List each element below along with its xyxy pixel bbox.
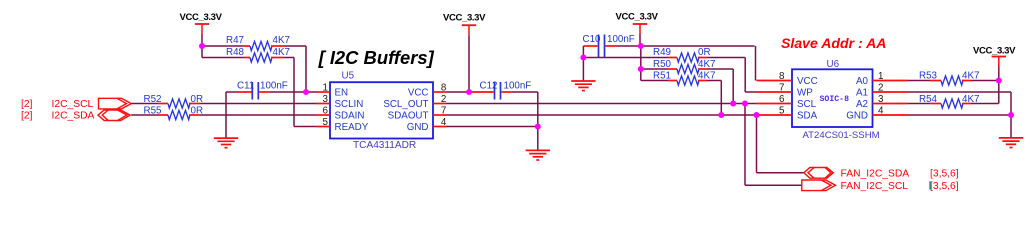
power VCC_3.3V P1 bbox=[180, 12, 223, 46]
U6 pin 2 A1 bbox=[856, 82, 907, 98]
svg-text:C10: C10 bbox=[583, 34, 602, 45]
title Slave Addr AA bbox=[781, 35, 886, 51]
wire vert to R51 bbox=[641, 80, 668, 82]
svg-text:SDA: SDA bbox=[797, 110, 818, 121]
svg-text:A0: A0 bbox=[856, 76, 869, 87]
svg-text:TCA4311ADR: TCA4311ADR bbox=[353, 140, 416, 151]
svg-text:[ I2C Buffers]: [ I2C Buffers] bbox=[318, 47, 435, 68]
svg-text:SCLIN: SCLIN bbox=[335, 99, 364, 110]
wire U5 GND row bbox=[447, 126, 538, 128]
svg-text:VCC_3.3V: VCC_3.3V bbox=[616, 12, 659, 23]
U5 pin 7 SDAOUT bbox=[388, 105, 447, 121]
svg-text:FAN_I2C_SCL: FAN_I2C_SCL bbox=[841, 181, 909, 192]
svg-text:100nF: 100nF bbox=[504, 81, 532, 92]
wire SDA to FAN_I2C_SDA bbox=[757, 115, 804, 173]
svg-text:[3,5,6]: [3,5,6] bbox=[930, 181, 959, 192]
svg-text:6: 6 bbox=[779, 94, 785, 105]
wire R51 to SDA row bbox=[707, 81, 721, 116]
wire C11 to EN node bbox=[269, 91, 317, 93]
svg-text:100nF: 100nF bbox=[607, 34, 635, 45]
svg-text:4K7: 4K7 bbox=[273, 35, 290, 46]
U6 pin 1 A0 bbox=[856, 71, 907, 87]
resistor R47 4K7 bbox=[226, 35, 290, 51]
svg-text:4K7: 4K7 bbox=[962, 70, 979, 81]
power VCC_3.3V P4 bbox=[973, 45, 1016, 80]
svg-text:R54: R54 bbox=[919, 94, 938, 105]
wire ground stem G2 bbox=[582, 58, 584, 82]
wire U5 VCC to junction bbox=[447, 91, 470, 93]
svg-text:VCC: VCC bbox=[797, 76, 818, 87]
wire VCC rail down to U6 pin8 bbox=[755, 46, 757, 81]
U6 pin 7 WP bbox=[757, 82, 814, 98]
svg-text:I2C_SCL: I2C_SCL bbox=[52, 99, 94, 110]
svg-text:GND: GND bbox=[407, 122, 429, 133]
wire vert to R50 bbox=[641, 68, 668, 70]
svg-text:8: 8 bbox=[441, 82, 447, 93]
capacitor C11 100nF bbox=[237, 81, 288, 100]
svg-text:R51: R51 bbox=[653, 70, 671, 81]
svg-text:1: 1 bbox=[323, 82, 328, 93]
wire SDA long row bbox=[447, 114, 757, 116]
svg-text:6: 6 bbox=[323, 105, 329, 116]
svg-text:EN: EN bbox=[335, 87, 349, 98]
wire R54 to VCC vertical bbox=[971, 81, 999, 104]
off-page connector I2C_SDA bbox=[21, 110, 130, 122]
svg-text:SDAIN: SDAIN bbox=[335, 110, 365, 121]
svg-text:SCL: SCL bbox=[797, 99, 817, 110]
svg-text:[2]: [2] bbox=[21, 111, 33, 122]
wire C11 to ground bbox=[226, 92, 238, 138]
svg-text:READY: READY bbox=[335, 122, 369, 133]
wire U6 A2 to R54 bbox=[908, 103, 931, 105]
wire GND node to R49 bbox=[583, 57, 668, 59]
svg-text:SDAOUT: SDAOUT bbox=[388, 110, 429, 121]
svg-text:FAN_I2C_SDA: FAN_I2C_SDA bbox=[841, 169, 910, 180]
svg-text:[3,5,6]: [3,5,6] bbox=[930, 169, 959, 180]
svg-text:2: 2 bbox=[878, 82, 883, 93]
U6 pin 4 GND bbox=[846, 105, 907, 121]
wire R48 to READY bbox=[285, 58, 317, 127]
svg-text:5: 5 bbox=[779, 105, 785, 116]
svg-text:2: 2 bbox=[441, 94, 446, 105]
wire SCL to FAN_I2C_SCL bbox=[745, 104, 802, 186]
op-amp U5 TCA4311ADR box bbox=[330, 71, 433, 151]
wire R52 to U5 pin3 bbox=[200, 103, 317, 105]
power VCC_3.3V P2 bbox=[443, 13, 486, 93]
svg-text:1: 1 bbox=[878, 71, 883, 82]
svg-text:U6: U6 bbox=[827, 59, 840, 70]
resistor R48 4K7 bbox=[226, 47, 290, 62]
svg-text:R55: R55 bbox=[144, 105, 163, 116]
svg-text:5: 5 bbox=[323, 117, 329, 128]
svg-text:GND: GND bbox=[846, 110, 868, 121]
svg-text:R47: R47 bbox=[226, 35, 244, 46]
svg-text:3: 3 bbox=[878, 94, 884, 105]
svg-text:R48: R48 bbox=[226, 47, 245, 58]
svg-text:R49: R49 bbox=[653, 47, 671, 58]
U5 pin 2 SCL_OUT bbox=[383, 94, 446, 110]
wire R53 to VCC4 bbox=[971, 80, 999, 82]
resistor R54 4K7 bbox=[919, 94, 979, 108]
U5 pin 6 SDAIN bbox=[317, 105, 365, 121]
ground under C10 bbox=[571, 81, 595, 91]
resistor R55 0R bbox=[144, 105, 204, 119]
svg-text:R53: R53 bbox=[919, 70, 938, 81]
svg-text:4: 4 bbox=[878, 105, 884, 116]
U6 pin 8 VCC bbox=[757, 71, 818, 87]
svg-text:8: 8 bbox=[779, 71, 785, 82]
U5 pin 4 GND bbox=[407, 117, 447, 133]
svg-text:7: 7 bbox=[441, 105, 446, 116]
svg-text:4K7: 4K7 bbox=[698, 59, 715, 70]
svg-text:VCC: VCC bbox=[408, 87, 429, 98]
wire C10 left to ground node bbox=[583, 46, 597, 58]
wire U6 A1 to GND node bbox=[908, 92, 1012, 115]
resistor R50 4K7 bbox=[653, 59, 715, 74]
svg-text:[2]: [2] bbox=[21, 99, 33, 110]
svg-text:4: 4 bbox=[441, 117, 447, 128]
U6 pin 5 SDA bbox=[757, 105, 818, 121]
wire SCL long row bbox=[447, 103, 757, 105]
wire C12 to ground bbox=[511, 92, 538, 150]
resistor R53 4K7 bbox=[919, 70, 979, 85]
svg-text:A1: A1 bbox=[856, 87, 868, 98]
svg-text:U5: U5 bbox=[342, 71, 355, 82]
wire R47 to EN node bbox=[285, 46, 307, 92]
off-page connector FAN_I2C_SDA bbox=[804, 168, 959, 180]
resistor R51 4K7 bbox=[653, 70, 715, 85]
svg-text:Slave Addr : AA: Slave Addr : AA bbox=[781, 35, 886, 51]
svg-text:SOIC-8: SOIC-8 bbox=[820, 95, 850, 104]
ground under C12 bbox=[526, 150, 550, 160]
U5 pin 5 READY bbox=[317, 117, 369, 133]
svg-text:VCC_3.3V: VCC_3.3V bbox=[443, 13, 486, 24]
U6 pin 6 SCL bbox=[757, 94, 817, 110]
svg-text:R52: R52 bbox=[144, 94, 162, 105]
wire U6 GND row bbox=[908, 115, 1012, 138]
wire R50 to SCL row bbox=[707, 69, 733, 104]
U5 pin 8 VCC bbox=[408, 82, 447, 98]
svg-text:C12: C12 bbox=[480, 81, 498, 92]
wire R49 to U6 WP bbox=[707, 58, 757, 93]
svg-text:VCC_3.3V: VCC_3.3V bbox=[180, 12, 223, 23]
svg-text:SCL_OUT: SCL_OUT bbox=[383, 99, 428, 110]
svg-text:R50: R50 bbox=[653, 59, 672, 70]
U6 pin 3 A2 bbox=[856, 94, 907, 110]
wire U6 A0 to R53 bbox=[908, 80, 931, 82]
IC U6 AT24CS01-SSHM box bbox=[792, 59, 880, 141]
resistor R52 0R bbox=[144, 94, 204, 108]
svg-text:100nF: 100nF bbox=[260, 81, 288, 92]
svg-text:VCC_3.3V: VCC_3.3V bbox=[973, 45, 1016, 56]
ground under U6 bbox=[999, 138, 1023, 148]
resistor R49 0R bbox=[653, 47, 711, 62]
svg-text:4K7: 4K7 bbox=[273, 47, 290, 58]
wire R55 to U5 pin6 bbox=[200, 114, 317, 116]
U5 pin 1 EN bbox=[317, 82, 349, 98]
off-page connector FAN_I2C_SCL bbox=[802, 180, 959, 192]
svg-text:C11: C11 bbox=[237, 81, 254, 92]
wire SCL row left bbox=[131, 103, 158, 105]
svg-text:4K7: 4K7 bbox=[698, 70, 715, 81]
wire VCC1 down to R48 bbox=[202, 46, 244, 58]
svg-text:WP: WP bbox=[797, 87, 813, 98]
title I2C Buffers bbox=[318, 47, 435, 68]
svg-text:0R: 0R bbox=[698, 47, 711, 58]
capacitor C12 100nF bbox=[469, 81, 531, 100]
off-page connector I2C_SCL bbox=[21, 98, 131, 110]
wire SDA row left bbox=[131, 114, 158, 116]
capacitor C10 100nF bbox=[583, 34, 635, 58]
svg-text:A2: A2 bbox=[856, 99, 868, 110]
svg-text:AT24CS01-SSHM: AT24CS01-SSHM bbox=[803, 130, 880, 141]
U5 pin 3 SCLIN bbox=[317, 94, 364, 110]
svg-text:7: 7 bbox=[779, 82, 784, 93]
ground under C11 bbox=[214, 138, 238, 148]
svg-text:I2C_SDA: I2C_SDA bbox=[52, 111, 95, 122]
wire VCC vertical feed R50 R51 bbox=[640, 46, 642, 81]
wire C10 right VCC rail bbox=[618, 45, 755, 47]
power VCC_3.3V P3 bbox=[616, 12, 659, 47]
wire VCC1 to R47 bbox=[202, 45, 244, 47]
svg-text:3: 3 bbox=[323, 94, 329, 105]
